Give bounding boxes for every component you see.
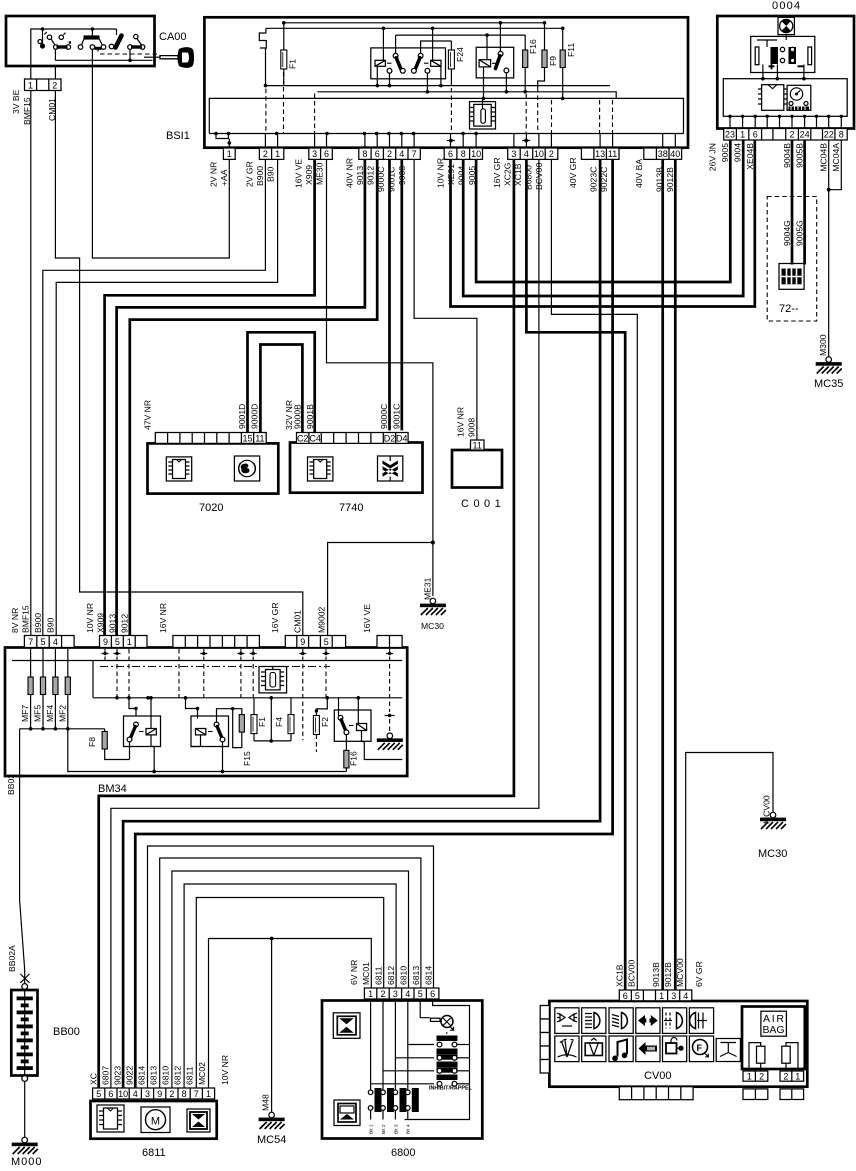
fuse F8 [102, 729, 129, 760]
svg-text:11: 11 [473, 440, 482, 450]
svg-text:MF5: MF5 [33, 705, 43, 722]
svg-text:9012: 9012 [120, 614, 130, 633]
svg-text:2: 2 [169, 1089, 174, 1099]
wire BB02 BM34 to battery [20, 772, 25, 986]
svg-text:6811: 6811 [373, 966, 383, 985]
svg-text:16V GR: 16V GR [270, 602, 280, 633]
CV00 bottom tabs [619, 1087, 693, 1100]
svg-text:1: 1 [740, 130, 745, 140]
svg-text:9000D: 9000D [250, 404, 260, 429]
BS11 internal line E feeding F24/F16 [396, 33, 525, 37]
svg-text:6807: 6807 [101, 1066, 111, 1085]
wire 9013 BS11 to BM34 pin5b [117, 159, 365, 635]
svg-text:2: 2 [387, 149, 392, 159]
svg-text:1: 1 [275, 149, 280, 159]
svg-text:MF4: MF4 [45, 705, 55, 722]
steering column control CV00 box [549, 1001, 807, 1087]
svg-text:8: 8 [182, 1089, 187, 1099]
BS11 internal line C [264, 84, 610, 88]
svg-text:40V NR: 40V NR [345, 158, 355, 188]
wire 6810 6811-pin2 to 6800-pin4 [172, 871, 409, 1088]
wire +AA BS11 pin1 to CA00 [92, 66, 229, 258]
relay R3 in BM34 [334, 698, 402, 760]
wire 6813 6811-pin9 to 6800-pin5 [160, 858, 421, 1088]
interior lamp unit 7020 box [148, 443, 279, 493]
svg-text:6811: 6811 [185, 1066, 195, 1085]
svg-text:4: 4 [53, 637, 58, 647]
svg-text:9: 9 [300, 637, 305, 647]
svg-text:8: 8 [839, 130, 844, 140]
6811 chip icon [97, 1105, 124, 1132]
BM34 internal ground [377, 733, 403, 750]
0004 pin dots [728, 115, 843, 129]
svg-text:7: 7 [194, 1089, 199, 1099]
icon rear fog [689, 1008, 713, 1034]
svg-text:8: 8 [362, 149, 367, 159]
svg-text:CM01: CM01 [293, 610, 303, 633]
svg-text:47V NR: 47V NR [143, 400, 153, 430]
BM34 component block on inner rect [259, 667, 287, 693]
wire 9013B BS11 pin38 to CV00 pin1 [661, 159, 664, 990]
fuse MF5 [40, 648, 45, 729]
svg-text:9001C: 9001C [387, 167, 397, 192]
icon high beam [582, 1008, 606, 1034]
svg-text:4: 4 [405, 989, 410, 999]
instrument cluster 0004 box [717, 16, 854, 129]
wire XE91/XE04B BS11 pin6 to 0004 pin6 [451, 140, 755, 307]
svg-text:MCV00: MCV00 [675, 958, 685, 987]
svg-text:F15: F15 [242, 751, 252, 766]
svg-text:BB02A: BB02A [7, 945, 17, 972]
relay box K2 [476, 47, 514, 78]
diagnostic connector C001 box [452, 450, 502, 488]
ground MC54 [259, 1112, 285, 1129]
svg-text:1: 1 [206, 1089, 211, 1099]
svg-text:6V NR: 6V NR [349, 960, 359, 985]
BS11 internal line D [317, 90, 616, 98]
svg-text:4: 4 [683, 991, 688, 1001]
svg-text:9008: 9008 [467, 418, 477, 437]
0004 electronics sub-box [723, 79, 847, 117]
relay K2 switch [492, 23, 509, 94]
BS11 pin wire labels [209, 157, 676, 192]
svg-text:B90: B90 [266, 166, 276, 182]
6811 motor icon [141, 1107, 170, 1133]
svg-text:9022: 9022 [125, 1066, 135, 1085]
CV00 pin labels [615, 958, 705, 987]
svg-text:4: 4 [133, 1089, 138, 1099]
svg-text:MF2: MF2 [58, 705, 68, 722]
svg-text:26V JN: 26V JN [708, 143, 718, 171]
7020 chip icon [166, 457, 191, 481]
wire XC1B BS11 pin4 to CV00 pin6 [526, 159, 625, 990]
svg-text:8V NR: 8V NR [10, 608, 20, 633]
wire MC02/MC01 6811-pin1 to 6800-pin1 [209, 939, 372, 1089]
wire 9000C BS11 pin2 to 7740 D2 [388, 159, 391, 430]
svg-text:6814: 6814 [137, 1066, 147, 1085]
svg-text:M000: M000 [11, 1156, 43, 1168]
svg-text:C4: C4 [309, 433, 321, 443]
wire 6814 6811-pin3 to 6800-pin6 [148, 846, 434, 1088]
wire B6800 BS11 pin10 to 6811 pin6 [111, 159, 539, 1088]
svg-text:B900: B900 [255, 166, 265, 186]
fuse F2 [313, 698, 327, 752]
svg-text:3: 3 [145, 1089, 150, 1099]
svg-text:5: 5 [324, 637, 329, 647]
svg-text:MC04A: MC04A [831, 143, 841, 172]
fuse F15 [231, 707, 244, 748]
BM34 junction crosses on top line [102, 652, 395, 717]
svg-text:XC1B: XC1B [615, 964, 625, 987]
svg-text:BSI1: BSI1 [166, 130, 190, 142]
BM34 group B labels [85, 603, 130, 633]
svg-text:9004B: 9004B [782, 143, 792, 168]
svg-text:9000C: 9000C [379, 404, 389, 429]
svg-text:5: 5 [96, 1089, 101, 1099]
svg-text:9000B: 9000B [293, 404, 303, 429]
BS11 internal supply line B [266, 27, 563, 31]
svg-text:22: 22 [824, 130, 834, 140]
svg-text:6: 6 [623, 991, 628, 1001]
body switch unit 6800 box [322, 1001, 482, 1139]
BM34 inner rect [12, 661, 402, 698]
dashed mechanical link to key [100, 53, 157, 55]
0004 gauge sub-box [751, 35, 815, 81]
svg-text:Bit 1: Bit 1 [369, 1124, 375, 1134]
svg-text:6811: 6811 [142, 1147, 166, 1159]
icon windshield wiper [555, 1036, 579, 1062]
CV00 pin cells row [619, 990, 692, 1001]
AIRBAG squib left [749, 1043, 765, 1071]
svg-text:1: 1 [368, 989, 373, 999]
svg-text:15: 15 [242, 433, 252, 443]
svg-text:1: 1 [747, 1071, 752, 1081]
svg-text:BB00: BB00 [53, 1026, 80, 1038]
ground MC30 right [760, 812, 786, 829]
svg-text:6: 6 [448, 149, 453, 159]
svg-text:23: 23 [725, 130, 735, 140]
connector 72 block [779, 264, 804, 290]
battery BB00 [11, 984, 37, 1082]
wire battery to M000 [24, 1081, 26, 1137]
svg-text:2: 2 [52, 81, 57, 91]
icon turn signals [636, 1008, 660, 1034]
svg-text:5: 5 [115, 637, 120, 647]
svg-text:C001: C001 [461, 498, 505, 510]
svg-text:6: 6 [108, 1089, 113, 1099]
svg-text:1: 1 [227, 149, 232, 159]
AIRBAG bottom tabs [743, 1089, 804, 1100]
6811 pin labels [89, 1055, 231, 1085]
fuse F1 BM34 [251, 698, 257, 741]
svg-text:2: 2 [263, 149, 268, 159]
warning lamp symbol [778, 17, 794, 34]
svg-text:9023C: 9023C [589, 167, 599, 192]
6800 pin cells row [364, 988, 439, 999]
svg-text:3: 3 [671, 991, 676, 1001]
svg-text:6V GR: 6V GR [694, 961, 704, 987]
connector CM01 pin row under CA00 [25, 79, 62, 91]
wire 9000D loop 7020 pin11 to 7740 C2 [260, 345, 302, 433]
6800 window icon top [333, 1013, 360, 1039]
svg-text:24: 24 [800, 130, 810, 140]
svg-text:F24: F24 [455, 47, 465, 62]
svg-text:10V NR: 10V NR [436, 158, 446, 188]
svg-text:CA00: CA00 [159, 31, 187, 43]
wire MCV00 CV00 pin4 to MC30 [686, 753, 773, 991]
wire 9008 BS11 pin7 to C001 [414, 159, 477, 440]
svg-text:1: 1 [795, 1071, 800, 1081]
ignition switch CA00 box [6, 16, 155, 66]
BM34 internal dashed drops from connector cells [105, 649, 390, 740]
AIRBAG pin cells [743, 1071, 804, 1081]
wire CM01 CA00 pin2 to BM34 pin9 [55, 91, 302, 636]
CV00 icon row 2 [555, 1036, 741, 1062]
CV00 left side tabs [540, 1006, 549, 1074]
BS11 internal supply line A [282, 21, 545, 25]
AIR BAG module box [742, 1007, 805, 1070]
svg-text:10: 10 [534, 149, 544, 159]
BM34 connector group A cells 7 5 4 [24, 636, 74, 648]
7020 buzzer icon [234, 456, 259, 481]
7740 pin cells [297, 433, 409, 444]
BM34 dash-dot internal line [100, 666, 330, 668]
svg-text:X909: X909 [96, 613, 106, 633]
wire MC04A 0004 pin8 joins MC04B [829, 140, 842, 190]
fuse F4 [288, 698, 294, 741]
svg-text:0004: 0004 [772, 0, 801, 12]
svg-text:9005G: 9005G [795, 220, 805, 246]
svg-text:3V BE: 3V BE [11, 89, 21, 114]
svg-text:40V BA: 40V BA [634, 159, 644, 188]
svg-text:CV00: CV00 [644, 1070, 672, 1082]
Bit labels [369, 1124, 412, 1134]
AIRBAG squib right [782, 1043, 798, 1071]
relay R2 in BM34 [186, 698, 242, 774]
svg-text:6810: 6810 [398, 966, 408, 985]
svg-text:9005B: 9005B [795, 143, 805, 168]
wire 6812 6811-pin8 to 6800-pin3 [184, 884, 396, 1088]
step symbol (current sensor) [259, 28, 266, 85]
BM34 inner bottom bus dots [115, 696, 360, 700]
svg-text:72--: 72-- [779, 303, 799, 315]
svg-text:9023: 9023 [113, 1066, 123, 1085]
svg-text:F16: F16 [528, 39, 538, 54]
svg-text:6812: 6812 [173, 1066, 183, 1085]
wire B900 BS11 to BM34 pin5 [43, 159, 266, 635]
icon hands free [689, 1036, 713, 1062]
svg-text:6: 6 [753, 130, 758, 140]
svg-text:F1: F1 [288, 59, 298, 69]
relay K1 switch 2 [412, 41, 452, 92]
svg-text:9013: 9013 [108, 614, 118, 633]
svg-text:C2: C2 [297, 433, 309, 443]
fuse F11 [560, 27, 565, 101]
wire B90 BS11 to BM34 pin4 [56, 159, 277, 635]
fuse MF4 [53, 648, 58, 729]
7020 pin cells [155, 433, 266, 444]
svg-text:F8: F8 [87, 737, 97, 747]
wire ME30 BS11 pin6 to ME31 junction [327, 159, 433, 596]
BM34 connector group C 16V NR cells [173, 636, 260, 648]
6811 pin cells row [93, 1088, 215, 1099]
fuse MF7 [28, 648, 33, 729]
junction ME31 [431, 541, 435, 545]
ground MC35 [816, 357, 842, 374]
svg-text:XC: XC [89, 1073, 99, 1085]
icon lights-on warning [636, 1036, 660, 1062]
svg-text:2V GR: 2V GR [245, 161, 255, 187]
svg-text:10: 10 [471, 149, 481, 159]
svg-text:7: 7 [412, 149, 417, 159]
svg-text:MC35: MC35 [814, 378, 843, 390]
wire CA00 pin2 stub [54, 66, 56, 79]
svg-text:INHIBIT/RAPPEL: INHIBIT/RAPPEL [429, 1086, 473, 1092]
switch SW3 (CA00 start contact) [109, 29, 145, 49]
svg-text:D2: D2 [384, 433, 396, 443]
svg-text:MC54: MC54 [257, 1134, 286, 1146]
svg-text:16V VE: 16V VE [294, 159, 304, 188]
svg-text:9: 9 [157, 1089, 162, 1099]
wire 9012 BS11 to BM34 pin1b [130, 159, 377, 635]
6800 INHIBIT switches [371, 999, 470, 1090]
wire 9005B 0004 pin24 to connector 72 [803, 140, 806, 265]
relay K1 switch 1 [387, 35, 405, 86]
BM34 F1/F4 bottom link [254, 698, 291, 743]
wire BMF15 CA00 pin1 to BM34 pin7 [30, 91, 32, 636]
icon interior light [716, 1039, 740, 1062]
svg-text:Bit 3: Bit 3 [393, 1124, 399, 1134]
svg-text:6800: 6800 [391, 1147, 415, 1159]
BM34 connector group E cells [377, 636, 402, 648]
svg-text:Bit 2: Bit 2 [381, 1124, 387, 1134]
svg-text:5: 5 [40, 637, 45, 647]
svg-text:2: 2 [789, 130, 794, 140]
C001 pin cell [471, 440, 485, 450]
icon door lock [663, 1036, 687, 1062]
svg-text:MC02: MC02 [197, 1062, 207, 1085]
svg-text:F11: F11 [566, 43, 576, 57]
svg-text:9004: 9004 [733, 143, 743, 162]
svg-text:9013: 9013 [355, 166, 365, 185]
icon horn [609, 1036, 633, 1062]
svg-text:6810: 6810 [161, 1066, 171, 1085]
svg-text:6: 6 [324, 149, 329, 159]
fuse F9 [538, 21, 547, 88]
svg-text:40: 40 [670, 149, 680, 159]
wire 9022C BS11 pin11 to 6811 pin4 [135, 159, 612, 1088]
svg-text:38: 38 [658, 149, 668, 159]
6800 right bus [405, 999, 470, 1120]
wire CA00 pin1 stub [30, 66, 32, 79]
junction M48 [270, 937, 274, 941]
relay K2 coil [479, 35, 491, 100]
relay K1 right coil [431, 28, 441, 85]
svg-text:2: 2 [380, 989, 385, 999]
svg-text:Bit 4: Bit 4 [406, 1124, 412, 1134]
connector 72 dashed box [767, 197, 817, 322]
svg-text:B6800: B6800 [524, 165, 534, 190]
7740 chip icon [308, 457, 333, 481]
svg-text:M9002: M9002 [317, 607, 327, 633]
fuse MF2 [65, 648, 70, 729]
svg-text:M300: M300 [818, 334, 828, 356]
CA00 internal lower bus wire [55, 49, 152, 66]
splice X mark [20, 974, 29, 983]
svg-text:4: 4 [524, 149, 529, 159]
CV00 icon row 1 [555, 1008, 714, 1034]
svg-text:M: M [151, 1116, 160, 1128]
svg-text:2: 2 [783, 1071, 788, 1081]
svg-text:MC04B: MC04B [819, 143, 829, 172]
relay R1 in BM34 [124, 696, 161, 773]
svg-text:BAG: BAG [763, 1024, 785, 1036]
svg-text:6814: 6814 [423, 966, 433, 985]
svg-text:9012B: 9012B [665, 167, 675, 192]
svg-text:6: 6 [375, 149, 380, 159]
svg-text:7740: 7740 [339, 502, 363, 514]
icon rear wiper [582, 1036, 606, 1062]
svg-text:40V GR: 40V GR [568, 157, 578, 188]
6800 key icon [420, 999, 453, 1030]
BS11 regulator component [470, 98, 496, 129]
svg-text:ME31: ME31 [423, 577, 433, 600]
fuse F16 [523, 35, 528, 94]
wire 9001C BS11 pin4 to 7740 D4 [400, 159, 403, 430]
svg-text:2V NR: 2V NR [209, 162, 219, 187]
icon front fog [663, 1008, 687, 1034]
wire XC2G BS11 pin3 to 6811 pin5 [99, 159, 514, 1088]
wire 9001D loop 7020 pin15 to 7740 C4 [248, 332, 315, 432]
ground MC30 (ME31) [420, 598, 446, 615]
svg-text:9005: 9005 [720, 143, 730, 162]
svg-text:9004G: 9004G [782, 220, 792, 246]
svg-text:F9: F9 [548, 56, 558, 66]
BS11 pin line junction dots [214, 132, 530, 148]
svg-text:BM34: BM34 [98, 783, 127, 795]
6811 flasher icon [187, 1109, 210, 1132]
fuse box BM34 [5, 648, 407, 777]
svg-text:+AA: +AA [219, 169, 229, 186]
icon headlamp flash [555, 1008, 579, 1034]
svg-text:4: 4 [399, 149, 404, 159]
svg-text:16V VE: 16V VE [362, 604, 372, 633]
svg-text:X909: X909 [304, 165, 314, 185]
svg-text:10: 10 [118, 1089, 128, 1099]
BS11 pin stubs [265, 134, 675, 149]
BM34 MF bus [20, 727, 105, 772]
svg-text:7: 7 [28, 637, 33, 647]
relay K1 left coil [375, 28, 385, 85]
wire 9004 BS11 pin8 to 0004 pin1 [463, 140, 743, 296]
svg-text:9012: 9012 [366, 166, 376, 185]
BM34 bottom internal bus [68, 729, 347, 774]
svg-text:F4: F4 [274, 717, 284, 727]
svg-text:BCV00: BCV00 [627, 960, 637, 987]
svg-text:10V NR: 10V NR [220, 1055, 230, 1085]
wire MC04B 0004 pin22 to M300 [828, 140, 830, 357]
6800 bit switches [368, 1088, 418, 1120]
svg-text:9004: 9004 [457, 166, 467, 185]
0004 pin wire labels [708, 143, 842, 172]
svg-text:2: 2 [759, 1071, 764, 1081]
svg-text:3: 3 [511, 149, 516, 159]
svg-text:7020: 7020 [199, 502, 223, 514]
svg-text:F2: F2 [320, 717, 330, 727]
svg-text:MC30: MC30 [758, 848, 787, 860]
icon low beam [609, 1008, 633, 1034]
svg-text:16V NR: 16V NR [158, 603, 168, 633]
